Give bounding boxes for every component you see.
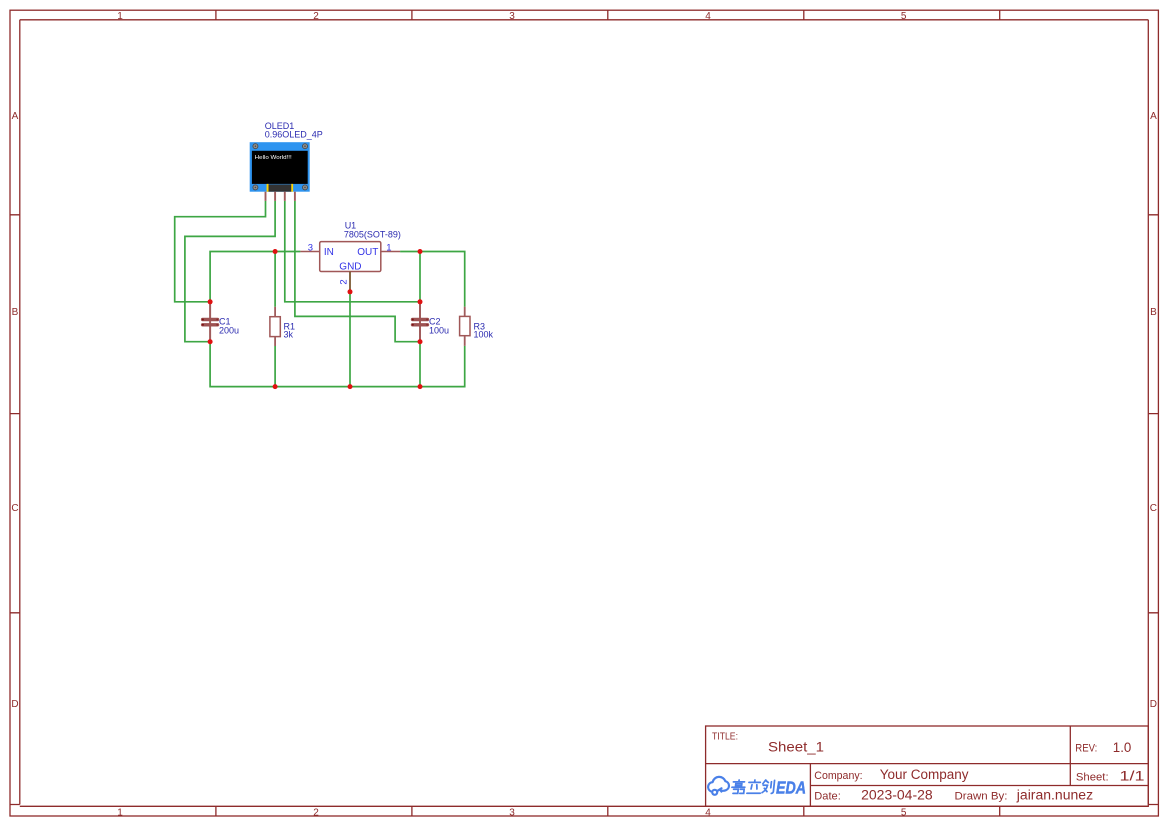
wire OLED pin2 to C1 bottom (185, 201, 275, 342)
C2 labels (429, 317, 449, 336)
wire OLED pin1 to C1 top (175, 201, 266, 302)
svg-text:Date:: Date: (814, 791, 841, 803)
regulator U1 7805(SOT-89) (320, 242, 381, 272)
U1 pin 2 (349, 272, 351, 292)
svg-text:OUT: OUT (357, 247, 378, 258)
svg-text:3: 3 (509, 11, 515, 22)
R3 labels (474, 321, 494, 339)
svg-text:7805(SOT-89): 7805(SOT-89) (344, 230, 401, 240)
svg-text:2023-04-28: 2023-04-28 (861, 788, 933, 803)
svg-text:B: B (12, 307, 19, 318)
junction IN node (273, 249, 278, 254)
OLED1 pin 3 (284, 192, 286, 201)
svg-text:Hello World!!!: Hello World!!! (255, 155, 292, 161)
svg-text:D: D (11, 699, 18, 710)
svg-text:2: 2 (338, 279, 349, 284)
svg-text:1/1: 1/1 (1120, 769, 1145, 784)
OLED1 pin 2 (274, 192, 276, 201)
svg-text:100u: 100u (429, 326, 449, 336)
svg-text:B: B (1150, 307, 1157, 318)
svg-text:3k: 3k (284, 329, 294, 339)
svg-text:3: 3 (308, 242, 313, 253)
C1 labels (219, 317, 239, 336)
svg-text:1: 1 (117, 807, 123, 818)
wire ground rail (210, 342, 465, 387)
U1 pin numbers (308, 242, 392, 284)
svg-text:3: 3 (509, 807, 515, 818)
svg-text:100k: 100k (474, 329, 494, 339)
capacitor C2 (412, 302, 428, 342)
svg-text:1: 1 (117, 11, 123, 22)
svg-text:jairan.nunez: jairan.nunez (1016, 788, 1094, 803)
U1 pin 1 (381, 251, 400, 253)
OLED1 labels (265, 121, 323, 139)
junction GND node (348, 289, 353, 294)
svg-text:A: A (12, 111, 19, 122)
svg-text:A: A (1150, 111, 1157, 122)
junction C1 top (208, 299, 213, 304)
junction C1 bottom (208, 339, 213, 344)
R1 labels (284, 321, 296, 339)
resistor R3 (460, 307, 470, 346)
wire C2 bottom (419, 342, 421, 387)
svg-text:IN: IN (324, 247, 334, 258)
junction rail C2 (418, 384, 423, 389)
wire R1 top (274, 252, 276, 307)
svg-text:5: 5 (901, 807, 907, 818)
svg-text:200u: 200u (219, 326, 239, 336)
svg-text:4: 4 (705, 11, 711, 22)
OLED module OLED1 (250, 142, 310, 192)
svg-text:1: 1 (386, 242, 391, 253)
OLED1 pin 1 (265, 192, 267, 201)
resistor R1 (270, 307, 280, 346)
wire OLED pin3 to C2 top (285, 201, 420, 302)
OLED1 pin 4 (294, 192, 296, 201)
svg-text:0.96OLED_4P: 0.96OLED_4P (265, 129, 323, 139)
junction C2 top (418, 299, 423, 304)
svg-text:Drawn By:: Drawn By: (955, 791, 1008, 803)
junction rail GND (348, 384, 353, 389)
junction C2 bottom (418, 339, 423, 344)
svg-text:EDA: EDA (776, 778, 806, 798)
wire R1 bottom (274, 346, 276, 387)
wire GND stem (349, 292, 351, 387)
U1 labels (344, 221, 401, 240)
svg-text:GND: GND (339, 262, 361, 273)
U1 pin names (324, 247, 378, 273)
svg-text:5: 5 (901, 11, 907, 22)
svg-text:2: 2 (313, 807, 319, 818)
svg-text:TITLE:: TITLE: (712, 731, 738, 742)
svg-text:1.0: 1.0 (1113, 740, 1132, 755)
svg-text:C: C (11, 503, 18, 514)
title block (706, 726, 1149, 806)
capacitor C1 (202, 302, 218, 342)
svg-text:Your Company: Your Company (880, 767, 969, 782)
wire IN net (210, 252, 300, 302)
svg-text:2: 2 (313, 11, 319, 22)
junction rail R1 (273, 384, 278, 389)
wire OLED pin4 to C2 bottom (295, 201, 420, 342)
svg-text:Sheet_1: Sheet_1 (768, 739, 824, 755)
svg-text:D: D (1150, 699, 1157, 710)
svg-text:Company:: Company: (814, 770, 862, 782)
junction OUT node (418, 249, 423, 254)
JLCEDA logo (708, 777, 729, 795)
svg-text:REV:: REV: (1075, 743, 1097, 755)
svg-text:C: C (1150, 503, 1157, 514)
U1 pin 3 (300, 251, 319, 253)
wire OUT to C2 top (419, 252, 421, 302)
svg-text:Sheet:: Sheet: (1076, 772, 1109, 784)
wire OUT net to R3 (400, 252, 465, 307)
svg-text:4: 4 (705, 807, 711, 818)
